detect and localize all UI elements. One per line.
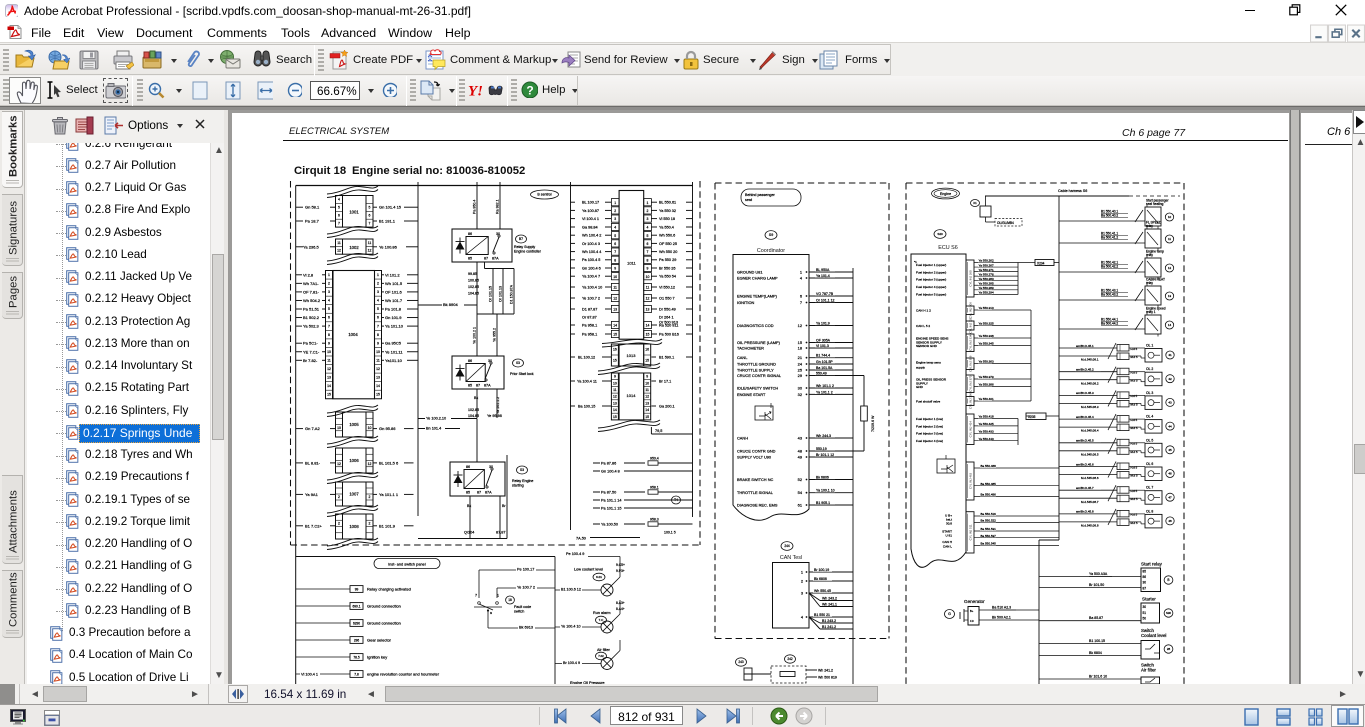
svg-text:48: 48 <box>798 449 802 454</box>
svg-text:1001: 1001 <box>349 210 359 215</box>
svg-text:am/Br.O.45.4: am/Br.O.45.4 <box>1076 415 1094 419</box>
svg-text:Ya 100.4 7: Ya 100.4 7 <box>582 275 600 279</box>
svg-text:Run alarm: Run alarm <box>593 611 611 615</box>
bus: 1011 sub-box left rail <box>570 182 572 530</box>
wires below K1 with terminal labels <box>468 262 514 314</box>
svg-text:S9: S9 <box>769 233 773 237</box>
svg-text:85: 85 <box>468 257 472 261</box>
svg-text:Pa 500 B16: Pa 500 B16 <box>659 332 679 336</box>
svg-text:Dr 264 1: Dr 264 1 <box>659 315 674 319</box>
svg-text:Ya 550.310: Ya 550.310 <box>979 306 994 310</box>
svg-text:5: 5 <box>614 234 616 238</box>
svg-text:6: 6 <box>647 242 649 246</box>
svg-text:Ya 550.433: Ya 550.433 <box>979 430 994 434</box>
label: S20 / ECU S6 <box>934 230 958 251</box>
svg-text:13: 13 <box>376 376 380 380</box>
svg-text:Ya 550.262: Ya 550.262 <box>979 259 994 263</box>
svg-text:BL 550.61: BL 550.61 <box>659 201 676 205</box>
bus: 1011 sub-box right rail <box>692 182 694 517</box>
svg-text:296: 296 <box>354 638 360 642</box>
svg-text:THROTTLE SIGNAL: THROTTLE SIGNAL <box>737 490 774 495</box>
svg-text:52: 52 <box>798 477 802 482</box>
svg-text:7: 7 <box>614 250 616 254</box>
svg-text:Low coolant level: Low coolant level <box>574 568 603 572</box>
svg-text:Generator: Generator <box>964 599 985 604</box>
svg-text:OF 7.81-: OF 7.81- <box>303 289 319 294</box>
page header right: Ch 6 page 77 <box>1122 127 1186 139</box>
svg-text:OIL PRESSURE (LAMP): OIL PRESSURE (LAMP) <box>737 340 781 345</box>
wires: fault code switch to panel bus <box>479 566 555 630</box>
svg-text:CYL INJ 334: CYL INJ 334 <box>969 334 973 351</box>
svg-text:9: 9 <box>614 375 616 379</box>
svg-text:7.02: 7.02 <box>598 654 604 658</box>
label: 244 / CAN Tesl <box>780 542 802 561</box>
svg-text:45: 45 <box>1168 448 1172 452</box>
wire: Bn 101.4 <box>418 425 460 431</box>
svg-text:Ground connection: Ground connection <box>367 621 401 626</box>
oval label: B sentrol <box>531 190 559 199</box>
svg-text:a: a <box>490 611 492 615</box>
svg-text:relay: relay <box>1146 281 1153 285</box>
svg-text:Or 87.87: Or 87.87 <box>582 315 597 319</box>
svg-text:104.85: 104.85 <box>468 414 479 418</box>
svg-text:M.d 5: M.d 5 <box>1131 426 1138 430</box>
svg-text:H.d 5: H.d 5 <box>1131 418 1138 422</box>
svg-text:8: 8 <box>647 258 649 262</box>
svg-text:Wh 101.7: Wh 101.7 <box>385 298 403 303</box>
svg-text:15: 15 <box>645 415 649 419</box>
svg-text:CAN H 1 2: CAN H 1 2 <box>916 308 931 312</box>
svg-text:2: 2 <box>801 579 803 584</box>
connector 1007 <box>336 482 374 506</box>
svg-text:am/Br.O.45.1: am/Br.O.45.1 <box>1076 344 1094 348</box>
svg-text:51: 51 <box>1143 611 1147 615</box>
svg-text:B7: B7 <box>519 237 523 241</box>
wires + labels: connector 1014 <box>571 380 675 409</box>
svg-text:CYL INJ 321: CYL INJ 321 <box>969 317 973 334</box>
svg-text:Ye 955.2: Ye 955.2 <box>493 328 497 342</box>
svg-text:15: 15 <box>613 333 617 337</box>
svg-text:Pa 101.1 14: Pa 101.1 14 <box>601 499 621 503</box>
svg-text:relay: relay <box>1146 224 1153 228</box>
svg-text:Bk 500 A2.1: Bk 500 A2.1 <box>992 616 1011 620</box>
svg-text:EGNER CHARG LAMP: EGNER CHARG LAMP <box>737 276 778 281</box>
svg-text:Ba 550.496: Ba 550.496 <box>981 493 997 497</box>
svg-text:13: 13 <box>613 308 617 312</box>
svg-text:11: 11 <box>368 241 372 245</box>
svg-text:Ya 550.285: Ya 550.285 <box>979 281 994 285</box>
svg-text:87: 87 <box>484 257 488 261</box>
svg-text:Start relay: Start relay <box>1141 562 1163 567</box>
svg-text:IDLE/SAFETY SWITCH: IDLE/SAFETY SWITCH <box>737 386 778 391</box>
wires + labels: connector 1004 <box>296 272 418 363</box>
connector 1006 <box>336 448 374 473</box>
svg-text:GND: GND <box>916 385 924 389</box>
svg-text:M.d 5: M.d 5 <box>1131 379 1138 383</box>
svg-text:Or 500 913: Or 500 913 <box>659 321 678 325</box>
svg-text:Ya 100.50: Ya 100.50 <box>601 523 618 527</box>
svg-text:B1 590.1: B1 590.1 <box>659 356 674 360</box>
svg-text:Dr 550.49: Dr 550.49 <box>659 307 676 311</box>
switch coolant level <box>1039 628 1173 659</box>
svg-text:14: 14 <box>646 324 650 328</box>
svg-text:GROUND U81: GROUND U81 <box>737 270 763 275</box>
wire: relay column bottom rail <box>418 455 507 539</box>
svg-text:OL 8: OL 8 <box>1146 509 1153 513</box>
svg-text:Ya 550.363: Ya 550.363 <box>979 360 994 364</box>
svg-text:Ra 982.1: Ra 982.1 <box>496 199 500 214</box>
svg-text:Pa 958.1: Pa 958.1 <box>582 332 597 336</box>
svg-text:H.d 5: H.d 5 <box>1131 394 1138 398</box>
svg-text:OL/GL/MB4: OL/GL/MB4 <box>997 221 1014 225</box>
ECU S6 block <box>911 254 966 567</box>
svg-text:X234: X234 <box>1037 261 1045 265</box>
svg-text:Vi 2.8: Vi 2.8 <box>303 272 314 277</box>
resistor 7/209.6W <box>861 376 875 452</box>
svg-text:10: 10 <box>613 275 617 279</box>
warning lamp: run alarm <box>555 600 625 633</box>
svg-text:Pa 950.4: Pa 950.4 <box>473 200 477 214</box>
svg-text:BL 101.5 6: BL 101.5 6 <box>379 460 399 465</box>
wires + labels: coordinator pins to bus <box>809 267 864 505</box>
svg-text:Pe 100.17: Pe 100.17 <box>517 568 534 572</box>
svg-text:6: 6 <box>614 242 616 246</box>
svg-text:BL 8.81-: BL 8.81- <box>305 460 321 465</box>
svg-text:Wh 101.5: Wh 101.5 <box>385 281 403 286</box>
starter <box>1039 597 1173 624</box>
svg-text:Coolant level: Coolant level <box>1141 633 1166 638</box>
svg-text:87: 87 <box>477 491 481 495</box>
svg-text:9: 9 <box>328 341 330 345</box>
svg-text:Pa 18.7: Pa 18.7 <box>305 219 320 224</box>
svg-text:Ya 550.440: Ya 550.440 <box>979 437 994 441</box>
svg-text:Vi 100.4 1: Vi 100.4 1 <box>582 217 599 221</box>
svg-text:Fuel injector 3 (upper): Fuel injector 3 (upper) <box>916 278 946 282</box>
wire: Pe 100.4.9 top feed <box>566 552 620 563</box>
svg-text:7/209.6 W: 7/209.6 W <box>871 415 875 432</box>
svg-text:Bk 6806: Bk 6806 <box>816 476 829 480</box>
wire: Pa 950.4 to K1 <box>473 182 478 229</box>
svg-text:7: 7 <box>800 300 802 305</box>
svg-text:CANL: CANL <box>737 355 748 360</box>
svg-text:Wh 100.4 4: Wh 100.4 4 <box>582 250 601 254</box>
wire: 79.5 branch <box>651 427 692 434</box>
svg-text:16: 16 <box>613 348 617 352</box>
svg-text:Ya 101.1 1: Ya 101.1 1 <box>379 492 399 497</box>
svg-text:18: 18 <box>508 598 512 602</box>
svg-text:starting: starting <box>512 484 524 488</box>
svg-text:87A: 87A <box>485 491 492 495</box>
svg-text:Br 17.1: Br 17.1 <box>659 380 671 384</box>
svg-text:11: 11 <box>613 388 617 392</box>
svg-text:Ch 6 page 77: Ch 6 page 77 <box>1122 127 1186 139</box>
svg-text:54: 54 <box>798 490 803 495</box>
svg-text:Pe 100.4 9: Pe 100.4 9 <box>566 552 584 556</box>
label: relay K2 <box>510 359 534 376</box>
svg-text:M.d.545.08.4: M.d.545.08.4 <box>1081 429 1099 433</box>
svg-text:Ground connection: Ground connection <box>367 604 401 609</box>
svg-text:Ya 550.345: Ya 550.345 <box>979 342 994 346</box>
connector 1014 <box>598 363 660 432</box>
svg-text:10: 10 <box>376 350 380 354</box>
svg-text:CYL INJ 375: CYL INJ 375 <box>969 375 973 392</box>
svg-text:2: 2 <box>614 209 616 213</box>
svg-text:Pa 101.1 15: Pa 101.1 15 <box>601 507 621 511</box>
cable loom wave below 1008 <box>327 538 378 550</box>
svg-text:Gn 100.4 6: Gn 100.4 6 <box>582 266 601 270</box>
svg-text:M.d 5: M.d 5 <box>1131 355 1138 359</box>
svg-text:7: 7 <box>647 250 649 254</box>
svg-text:?: ? <box>526 84 533 98</box>
svg-text:Vi 550.12: Vi 550.12 <box>659 285 675 289</box>
svg-text:7: 7 <box>377 324 379 328</box>
svg-text:13: 13 <box>646 308 650 312</box>
svg-text:24: 24 <box>798 362 803 367</box>
svg-text:Ya 550.271: Ya 550.271 <box>979 268 994 272</box>
section border: coordinator box (dashed) <box>715 183 889 639</box>
svg-text:Pa 87.50: Pa 87.50 <box>601 491 616 495</box>
svg-text:Br 101.1 12: Br 101.1 12 <box>816 453 834 457</box>
cable loom wave below 1005 <box>327 436 378 448</box>
svg-text:12: 12 <box>337 249 341 253</box>
svg-text:21: 21 <box>798 355 802 360</box>
svg-text:Ba 500.42.2: Ba 500.42.2 <box>1101 264 1118 268</box>
svg-text:M.d.545.08.8: M.d.545.08.8 <box>1081 524 1099 528</box>
svg-text:Pa 550 29: Pa 550 29 <box>659 258 676 262</box>
svg-text:Ya 550.401: Ya 550.401 <box>979 397 994 401</box>
connector 1005 <box>336 412 374 437</box>
wires + labels: CAN test <box>809 568 853 630</box>
svg-text:10: 10 <box>1168 215 1172 219</box>
label box: OL/GL/MB4 (dashed) <box>995 219 1022 227</box>
svg-text:Ya 550.267: Ya 550.267 <box>979 263 994 267</box>
svg-text:99.85: 99.85 <box>468 272 477 276</box>
svg-text:30: 30 <box>1143 581 1147 585</box>
svg-text:Ba 500.43.2: Ba 500.43.2 <box>1101 292 1118 296</box>
wires: 1011 aux group with fuses <box>576 457 693 541</box>
transistor symbol (ECU) <box>937 455 955 473</box>
svg-text:Ga 95C5: Ga 95C5 <box>385 341 402 346</box>
svg-text:Ya 101.10: Ya 101.10 <box>385 324 404 329</box>
svg-text:Ba 550.468: Ba 550.468 <box>981 464 997 468</box>
svg-text:Ba 510 A2.3: Ba 510 A2.3 <box>992 606 1011 610</box>
svg-text:Wh 550.45: Wh 550.45 <box>814 589 831 593</box>
svg-text:am/Br.O.45.2: am/Br.O.45.2 <box>1076 368 1094 372</box>
svg-text:5: 5 <box>647 234 649 238</box>
svg-text:D1 150.87A: D1 150.87A <box>510 284 514 304</box>
svg-text:47: 47 <box>1168 495 1172 499</box>
svg-text:Gn 100.4 8: Gn 100.4 8 <box>601 470 620 474</box>
svg-text:3: 3 <box>614 217 616 221</box>
svg-text:Wh 243.2: Wh 243.2 <box>822 597 837 601</box>
svg-text:87A: 87A <box>492 257 499 261</box>
svg-text:Ba 101.5A: Ba 101.5A <box>816 366 833 370</box>
svg-text:Vi 550 18: Vi 550 18 <box>659 217 675 221</box>
svg-text:Ya 550.325: Ya 550.325 <box>979 322 994 326</box>
ECU pin group boxes <box>966 260 974 553</box>
connector 1013 <box>602 339 662 366</box>
svg-text:seat: seat <box>745 198 752 202</box>
bus: ECU collectors <box>1018 263 1035 446</box>
svg-text:Ya 100.87: Ya 100.87 <box>582 209 599 213</box>
relay K3 Engine starting <box>450 462 505 496</box>
start relay <box>1039 562 1173 592</box>
svg-text:IGNITION: IGNITION <box>737 300 754 305</box>
svg-text:9: 9 <box>647 267 649 271</box>
svg-text:Comments: Comments <box>8 572 20 627</box>
svg-text:8: 8 <box>614 258 616 262</box>
svg-text:CYL INJ 414: CYL INJ 414 <box>969 421 973 438</box>
svg-text:Fuel injector 4 (low): Fuel injector 4 (low) <box>916 439 943 443</box>
svg-text:Ya 550.289: Ya 550.289 <box>979 286 994 290</box>
svg-text:1: 1 <box>647 201 649 205</box>
svg-text:8.A4+: 8.A4+ <box>616 607 625 611</box>
svg-text:Wh 550.6: Wh 550.6 <box>659 234 675 238</box>
svg-text:BL 100.17: BL 100.17 <box>582 201 599 205</box>
svg-text:Starter: Starter <box>1142 597 1156 602</box>
svg-text:12: 12 <box>1168 266 1172 270</box>
switch air filter <box>1039 663 1160 685</box>
svg-text:Ya 550.386: Ya 550.386 <box>979 383 994 387</box>
svg-text:85: 85 <box>1143 570 1147 574</box>
svg-text:OL 1: OL 1 <box>1146 344 1153 348</box>
svg-text:B1 191.1: B1 191.1 <box>379 219 396 224</box>
svg-text:CYL INJ 462: CYL INJ 462 <box>969 472 973 489</box>
section border: left harness box <box>291 181 701 545</box>
svg-text:15: 15 <box>798 340 802 345</box>
svg-text:1: 1 <box>614 201 616 205</box>
cable loom wave below 1007 <box>327 505 378 517</box>
svg-text:12: 12 <box>368 249 372 253</box>
svg-text:9: 9 <box>377 341 379 345</box>
bus: left section feed line <box>295 186 297 685</box>
svg-text:7: 7 <box>369 221 371 225</box>
wires below K2 <box>468 389 500 418</box>
svg-text:10: 10 <box>368 426 372 430</box>
svg-text:Br 550 26: Br 550 26 <box>659 266 675 270</box>
svg-text:Gn 101.4 15: Gn 101.4 15 <box>379 205 402 210</box>
warning lamp: low coolant level <box>555 563 625 596</box>
svg-text:am/Br.O.45.3: am/Br.O.45.3 <box>1076 391 1094 395</box>
fault code switch <box>474 570 531 628</box>
svg-text:Ya 100.4 11: Ya 100.4 11 <box>577 380 597 384</box>
svg-text:48: 48 <box>1168 519 1172 523</box>
svg-text:Ye 100.2 1: Ye 100.2 1 <box>473 327 477 344</box>
svg-text:Ga 200.1: Ga 200.1 <box>659 405 675 409</box>
svg-text:CRUCE CONTR GND: CRUCE CONTR GND <box>737 449 776 454</box>
svg-text:S3: S3 <box>520 468 524 472</box>
svg-text:B1 241.2: B1 241.2 <box>822 625 836 629</box>
svg-text:50: 50 <box>1143 617 1147 621</box>
svg-text:M.d.545.08.3: M.d.545.08.3 <box>1081 405 1099 409</box>
svg-text:Ye 95.86: Ye 95.86 <box>487 414 502 418</box>
svg-text:Behind passenger: Behind passenger <box>745 193 775 197</box>
svg-text:2: 2 <box>328 282 330 286</box>
svg-text:Ya 550.418: Ya 550.418 <box>979 415 994 419</box>
connector 1001 <box>327 186 378 238</box>
svg-text:OL 3: OL 3 <box>1146 391 1153 395</box>
svg-text:Ba 85.87: Ba 85.87 <box>1089 616 1103 620</box>
svg-text:inst- and switch panel: inst- and switch panel <box>388 562 426 567</box>
svg-text:87: 87 <box>476 384 480 388</box>
svg-text:78.5: 78.5 <box>353 655 359 659</box>
svg-text:11: 11 <box>645 388 649 392</box>
svg-text:H.d 5: H.d 5 <box>1131 371 1138 375</box>
svg-text:13: 13 <box>613 401 617 405</box>
svg-text:6: 6 <box>377 316 379 320</box>
svg-text:Ba 550.522: Ba 550.522 <box>981 519 997 523</box>
svg-text:Ya 550 54: Ya 550 54 <box>659 275 676 279</box>
svg-text:Bk: Bk <box>467 504 471 508</box>
svg-text:16: 16 <box>645 348 649 352</box>
svg-text:13: 13 <box>327 376 331 380</box>
svg-text:12: 12 <box>798 323 802 328</box>
svg-text:7: 7 <box>338 221 340 225</box>
svg-text:4: 4 <box>338 198 340 202</box>
svg-text:15: 15 <box>613 415 617 419</box>
svg-text:8: 8 <box>328 333 330 337</box>
svg-text:12: 12 <box>646 297 650 301</box>
svg-text:2: 2 <box>377 282 379 286</box>
svg-text:M.d 5: M.d 5 <box>1131 450 1138 454</box>
svg-text:41: 41 <box>1168 353 1172 357</box>
svg-text:Br 100.19: Br 100.19 <box>814 568 829 572</box>
cable loom wave below 1006 <box>327 472 378 484</box>
svg-text:Br 7.82-: Br 7.82- <box>303 358 318 363</box>
svg-text:H.d 5: H.d 5 <box>1131 489 1138 493</box>
svg-text:9.C5+: 9.C5+ <box>616 563 625 567</box>
svg-text:86: 86 <box>466 465 470 469</box>
svg-text:CYL INJ 306: CYL INJ 306 <box>969 302 973 319</box>
svg-text:950.4: 950.4 <box>650 457 659 461</box>
svg-text:Wh 550 20: Wh 550 20 <box>659 250 677 254</box>
svg-text:OF 550 25: OF 550 25 <box>659 242 677 246</box>
svg-text:Pa 5C1-: Pa 5C1- <box>303 341 318 346</box>
connector 1011 left pin cells <box>611 199 619 338</box>
svg-text:ENGINE START: ENGINE START <box>737 392 766 397</box>
wires + labels: connector 1008 <box>296 523 414 528</box>
svg-text:relay: relay <box>1146 253 1153 257</box>
svg-text:B1 100.15: B1 100.15 <box>1089 639 1105 643</box>
svg-text:Relay charging activated: Relay charging activated <box>367 587 411 592</box>
svg-text:1002: 1002 <box>349 245 359 250</box>
svg-text:03: 03 <box>516 361 520 365</box>
svg-text:Gear selector: Gear selector <box>367 638 392 643</box>
svg-text:6: 6 <box>338 213 340 217</box>
transistor symbol (coordinator) <box>755 403 773 420</box>
svg-text:OL 4: OL 4 <box>1146 415 1153 419</box>
svg-text:THROTTLE GROUND: THROTTLE GROUND <box>737 362 776 367</box>
svg-text:6290: 6290 <box>353 621 360 625</box>
svg-text:1: 1 <box>377 273 379 277</box>
svg-text:Coordinator: Coordinator <box>757 248 785 254</box>
svg-text:Ga 98.84: Ga 98.84 <box>582 225 598 229</box>
svg-text:Ye 100.7 2: Ye 100.7 2 <box>582 296 600 300</box>
svg-text:3: 3 <box>647 217 649 221</box>
oval label: inst- and switch panel <box>374 559 440 569</box>
relay K1 Engine controller <box>452 229 512 262</box>
svg-text:Ignition key: Ignition key <box>367 655 387 660</box>
circuit title <box>294 165 525 177</box>
wires + labels: connector 1006 <box>296 460 414 465</box>
svg-text:Br 100.4 9: Br 100.4 9 <box>563 661 580 665</box>
svg-text:Ba 550.531: Ba 550.531 <box>981 527 997 531</box>
coordinator block <box>733 248 809 520</box>
svg-text:958.1: 958.1 <box>650 486 659 490</box>
svg-text:Ya 550.425: Ya 550.425 <box>979 422 994 426</box>
svg-text:102.85: 102.85 <box>468 408 479 412</box>
svg-text:Ba 550.485: Ba 550.485 <box>981 482 997 486</box>
